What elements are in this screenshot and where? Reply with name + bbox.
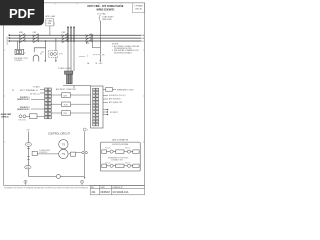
svg-text:CD 94949-01A: CD 94949-01A bbox=[113, 191, 129, 194]
border tick marks bbox=[4, 3, 145, 142]
svg-text:ATS LOAD: ATS LOAD bbox=[46, 15, 56, 18]
transformer CT1 (arc) bbox=[33, 55, 39, 61]
breaker SW2 bbox=[33, 34, 39, 43]
wire: load drop vertical bbox=[99, 21, 101, 55]
svg-text:WIRING SCHEMATIC: WIRING SCHEMATIC bbox=[97, 7, 115, 11]
wire: drop to arrow bbox=[99, 55, 101, 60]
node dash row with label bbox=[93, 54, 100, 56]
svg-text:N.O./C: N.O./C bbox=[105, 147, 111, 149]
svg-text:7CR COIL: 7CR COIL bbox=[18, 120, 26, 122]
wire: tap riser 3 bbox=[73, 28, 75, 43]
relay K1 (dashed box) bbox=[49, 51, 58, 58]
relay box 829B bbox=[51, 111, 90, 116]
contact row 1 bbox=[102, 150, 139, 154]
svg-text:EPCT TERMINAL 14: EPCT TERMINAL 14 bbox=[20, 89, 38, 92]
node arrow below rail bbox=[84, 177, 86, 179]
breaker SW3 bbox=[62, 34, 68, 43]
svg-text:TO ATS CONN: TO ATS CONN bbox=[58, 67, 71, 70]
svg-text:CONTACT SET: CONTACT SET bbox=[111, 158, 123, 161]
node switch end ticks bbox=[20, 34, 92, 42]
relay box 829A bbox=[51, 93, 90, 98]
wire: bottom rail bbox=[29, 175, 85, 177]
svg-text:17h: 17h bbox=[102, 55, 105, 57]
node left labels bbox=[1, 86, 40, 119]
svg-text:09/05/18: 09/05/18 bbox=[101, 191, 111, 194]
svg-text:PDF: PDF bbox=[9, 6, 35, 21]
svg-text:ATS (GND) OFF: ATS (GND) OFF bbox=[109, 101, 123, 104]
svg-text:UTILITY: UTILITY bbox=[7, 36, 9, 45]
wire: tap riser 2 bbox=[70, 28, 72, 43]
svg-text:SHOWN IN NORMAL: SHOWN IN NORMAL bbox=[112, 143, 128, 146]
node riser marker bbox=[83, 128, 86, 131]
svg-text:TO ATS: TO ATS bbox=[33, 86, 40, 89]
connector TB3 pins bbox=[93, 88, 99, 126]
breaker SW4 bbox=[86, 34, 92, 43]
svg-text:ATS SOURCE: ATS SOURCE bbox=[109, 98, 121, 101]
svg-text:(GENERATOR SET): (GENERATOR SET) bbox=[17, 108, 30, 111]
PDF badge bbox=[0, 0, 44, 25]
node tap arrows bbox=[67, 26, 75, 28]
svg-text:N.C./O: N.C./O bbox=[125, 162, 131, 164]
svg-text:THIS DRAWING IS THE PROPERTY O: THIS DRAWING IS THE PROPERTY OF THE MANU… bbox=[4, 187, 89, 190]
ATS contacts box bbox=[100, 142, 140, 171]
svg-text:1: 1 bbox=[87, 130, 88, 132]
svg-text:TS: TS bbox=[62, 152, 66, 156]
breaker SW1 bbox=[20, 34, 26, 43]
connector J1 (dark block) bbox=[65, 71, 73, 84]
junction dots bbox=[45, 34, 93, 41]
phase line L3 bbox=[9, 40, 142, 42]
wire: drop K1 bbox=[55, 38, 57, 51]
relay box A#B bbox=[106, 88, 113, 92]
svg-text:LINE: LINE bbox=[47, 23, 52, 25]
node junction ticks bbox=[27, 148, 30, 150]
lamp X1 bbox=[56, 174, 60, 178]
wire: TB3 exits bbox=[103, 90, 116, 115]
svg-text:P4: P4 bbox=[12, 90, 14, 92]
node zone marker 1 bbox=[24, 180, 27, 185]
wire: left label wires bbox=[31, 89, 45, 116]
wire: drop U1 bbox=[44, 48, 46, 60]
notes text bbox=[112, 44, 140, 55]
svg-text:MOUNTING DETAILS: MOUNTING DETAILS bbox=[114, 51, 132, 54]
terminal strip TB1 bbox=[45, 88, 52, 119]
svg-text:SOURCE 1 (N.O./C): SOURCE 1 (N.O./C) bbox=[109, 95, 126, 97]
svg-text:UT4-MTD: UT4-MTD bbox=[15, 60, 24, 62]
svg-text:(GENERATOR SET): (GENERATOR SET) bbox=[17, 98, 30, 101]
svg-text:LINE SIDE: LINE SIDE bbox=[102, 19, 112, 21]
relay box right of coil bbox=[70, 152, 75, 156]
wire: J1 to TB3 bbox=[63, 85, 91, 87]
relay box 7CR2 bbox=[30, 114, 38, 119]
svg-text:ATS INPUT CONN PINS: ATS INPUT CONN PINS bbox=[56, 88, 77, 91]
node phase end labels bbox=[142, 34, 145, 43]
relay box 7CR bbox=[51, 102, 90, 107]
wire: control bus bbox=[28, 131, 30, 176]
phase line L2 bbox=[9, 37, 142, 39]
node tap box bbox=[46, 19, 54, 26]
svg-text:xxx-xxx: xxx-xxx bbox=[79, 56, 85, 58]
switch TS bbox=[32, 151, 37, 155]
title corner box bbox=[133, 3, 145, 13]
svg-text:(3W+E): (3W+E) bbox=[135, 9, 142, 11]
svg-text:ATS CONTACTS: ATS CONTACTS bbox=[112, 138, 128, 141]
svg-text:S2 INPUT: S2 INPUT bbox=[110, 112, 119, 114]
svg-text:24 VDC (+): 24 VDC (+) bbox=[30, 93, 40, 95]
wire: L1 branch to load drop bbox=[92, 35, 100, 47]
load side label bbox=[97, 13, 114, 22]
svg-text:001: 001 bbox=[92, 191, 97, 194]
page border bbox=[4, 3, 145, 186]
meter box M1 bbox=[15, 49, 24, 54]
svg-text:EMERGENCY ONLY: EMERGENCY ONLY bbox=[117, 89, 135, 91]
svg-text:N.C./O: N.C./O bbox=[125, 147, 131, 149]
title block table bbox=[90, 186, 144, 195]
svg-text:CONTROL CIRCUIT: CONTROL CIRCUIT bbox=[48, 133, 70, 136]
svg-text:7CR: 7CR bbox=[64, 105, 69, 107]
contact S5 (engine start) bbox=[19, 115, 22, 118]
wire: risers to meter box bbox=[17, 41, 19, 49]
connector TB3 box bbox=[91, 86, 104, 128]
wire: to coil bbox=[37, 153, 58, 155]
title text bbox=[88, 4, 124, 11]
node line start terminals bbox=[9, 35, 10, 42]
wire: branch to CT bbox=[34, 41, 45, 52]
contact row 2 bbox=[102, 164, 139, 168]
svg-text:CONTACTS: CONTACTS bbox=[1, 116, 9, 119]
node zone marker 2 bbox=[80, 180, 83, 185]
fuse F2 bbox=[26, 142, 32, 146]
svg-text:TS: TS bbox=[62, 142, 66, 146]
tap label block bbox=[46, 15, 56, 25]
wire: right riser bbox=[84, 132, 86, 152]
node junction ticks 2 bbox=[27, 155, 30, 157]
contact C2 (ellipse) bbox=[25, 166, 31, 169]
svg-text:CONTROL: CONTROL bbox=[39, 152, 47, 154]
svg-text:F1: F1 bbox=[27, 144, 29, 146]
wire: tap riser 1 bbox=[67, 28, 69, 43]
contact pair on riser bbox=[76, 152, 82, 154]
phase line L1 bbox=[9, 34, 142, 36]
wire: tap box drop bbox=[49, 26, 51, 35]
coil M1 (double circle) bbox=[59, 140, 68, 149]
svg-text:F1: F1 bbox=[40, 54, 42, 56]
svg-text:3 PHASE: 3 PHASE bbox=[134, 5, 143, 8]
